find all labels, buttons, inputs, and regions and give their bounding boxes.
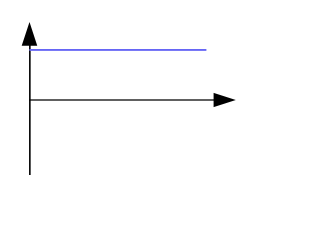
x-axis line — [29, 99, 215, 101]
y-axis arrowhead — [22, 22, 38, 46]
y-axis line — [29, 40, 31, 175]
blue line — [29, 49, 206, 51]
x-axis arrowhead — [214, 93, 236, 107]
